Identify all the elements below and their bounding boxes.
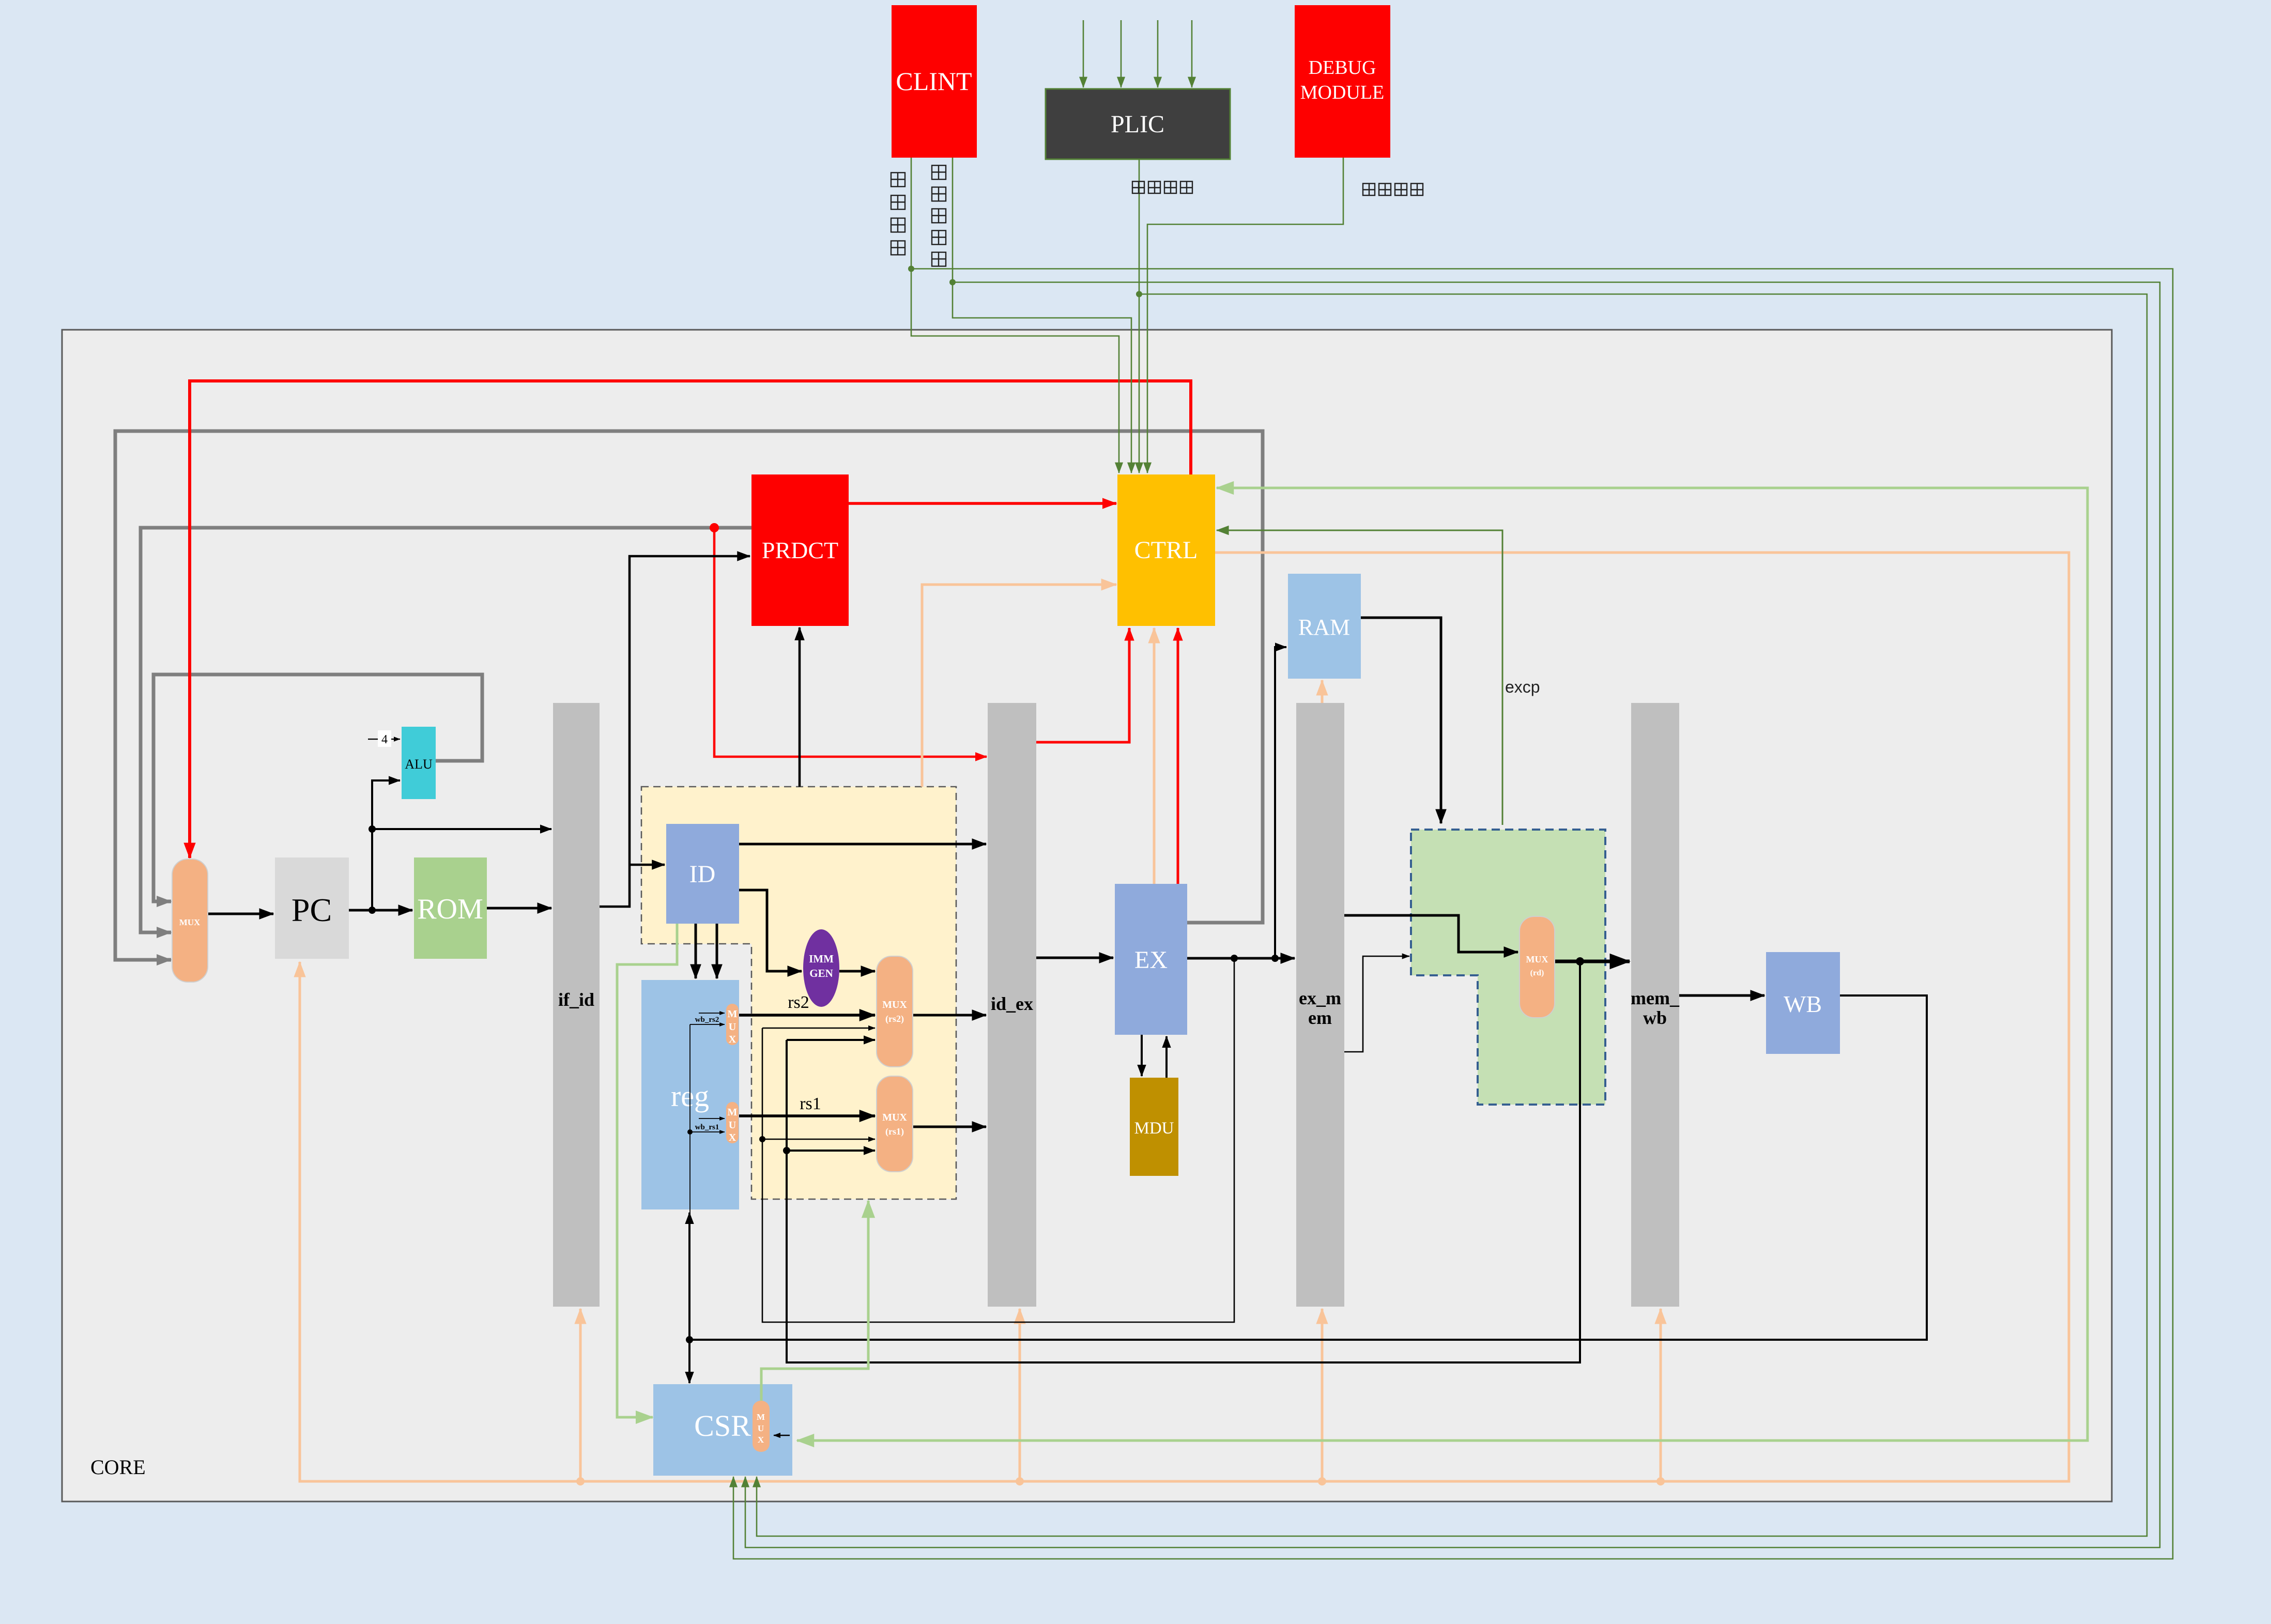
wire EX stall request to CTRL [1153,628,1156,884]
wire reg rs1 read stub [699,1118,725,1119]
svg-text:(rs1): (rs1) [885,1126,904,1137]
label external interrupt (CJK) [1132,181,1145,194]
wire WB forward to MUX(rs1) [787,1150,875,1152]
block ROM [414,857,487,959]
CORE box [62,330,2112,1502]
wire ex_mem to MUX(rd) [1344,915,1518,952]
block EX [1115,884,1187,1035]
block CSR [653,1384,792,1476]
wire software interrupt loop to CSR [733,269,2173,1559]
wire MDU to EX [1165,1036,1168,1078]
junction dot pc tap [369,825,376,833]
wire ID rs addresses to reg (two arrows) [695,924,697,978]
pipeline register bar id_ex [988,703,1036,1307]
wire MUX(rs2) to id_ex [913,1014,986,1017]
wire PRDCT to CTRL [849,502,1116,505]
wire CLINT timer interrupt to CTRL [953,158,1131,473]
svg-text:RAM: RAM [1298,615,1350,640]
svg-text:M: M [757,1412,765,1422]
label software interrupt (CJK) [891,173,905,187]
svg-text:MODULE: MODULE [1300,82,1385,103]
wire rs1 data to MUX(rs1) [738,1114,875,1117]
wire MUX(rs1) to id_ex [913,1126,986,1128]
wire decoder stall request to CTRL [922,585,1116,787]
wire hold arrow into if_id bottom [579,1309,582,1481]
svg-text:MUX: MUX [1526,954,1548,964]
label constant 4 [378,730,391,747]
block MDU [1130,1078,1178,1176]
wire rd forward loop down [787,961,1580,1362]
svg-text:MUX: MUX [179,917,201,927]
svg-text:X: X [729,1132,736,1143]
block RAM [1288,574,1361,679]
wire PC value up to ALU [372,780,400,910]
svg-text:ex_m: ex_m [1299,988,1341,1008]
wire reg and CSR exchange (double arrow) [688,1213,690,1383]
svg-text:GEN: GEN [809,967,833,979]
svg-text:MUX: MUX [882,999,907,1010]
wire exception signal green box to CTRL [1217,530,1502,825]
svg-text:rs1: rs1 [800,1094,821,1113]
block MUX pc [172,859,208,982]
wire EX to MDU [1141,1035,1143,1076]
label debug interrupt (CJK) [1363,183,1375,196]
block PRDCT branch predictor [751,474,849,626]
wire EX forward to MUX(rs1) [762,1139,875,1140]
svg-text:X: X [758,1435,764,1445]
wire ALU PC+4 loop to MUX input 1 [154,675,482,901]
wire id_ex branch info to CTRL [1036,628,1129,742]
wire ex_mem to green box low input [1344,956,1409,1052]
svg-text:excp: excp [1505,678,1540,696]
block DEBUG MODULE [1295,5,1390,158]
wire RAM read data to green box [1361,618,1441,823]
wire CTRL hold signal loop to PC and pipeline registers [300,553,2069,1481]
wire rs2 data to MUX(rs2) [738,1014,875,1017]
svg-text:MDU: MDU [1134,1119,1174,1138]
block PLIC [1046,89,1230,159]
svg-text:id_ex: id_ex [991,993,1033,1014]
wire PC value to if_id [372,828,551,830]
block forward mux wb_rs2 [726,1004,739,1045]
wire decode box to PRDCT bottom [799,627,801,787]
wire CLINT software interrupt to CTRL [911,158,1119,473]
svg-text:EX: EX [1134,946,1168,974]
block CTRL [1117,474,1215,626]
block IMM GEN [803,929,839,1007]
label timer interrupt (CJK) [932,165,946,179]
junction dot red on gray line [710,523,719,532]
wire MUX(rd) to mem_wb [1555,960,1630,963]
pipeline register bar mem_wb [1631,703,1679,1307]
wire EX forward loop down [762,958,1234,1322]
junction dots peach [576,1477,585,1485]
wire DEBUG MODULE interrupt to CTRL [1147,158,1343,473]
wire hold arrow into ex_mem bottom [1321,1309,1324,1481]
svg-text:X: X [729,1034,736,1045]
svg-text:ID: ID [689,861,716,888]
svg-text:PC: PC [291,892,332,928]
wire CSR read data to decode box [761,1201,868,1401]
wire hold arrow into mem_wb bottom [1660,1309,1662,1481]
wire EX result to ex_mem [1187,957,1295,960]
wire reg rs2 read stub [699,1013,725,1014]
svg-text:MUX: MUX [882,1112,907,1123]
wire timer interrupt loop to CSR [745,282,2160,1548]
svg-text:PLIC: PLIC [1111,111,1164,138]
block WB [1766,952,1840,1054]
svg-text:em: em [1308,1007,1332,1028]
wire WB forward to MUX(rs2) [787,1039,875,1041]
svg-text:WB: WB [1784,991,1822,1017]
wire CSR and CTRL exchange (light green loop) [797,488,2088,1441]
wire ID to id_ex [739,843,986,846]
wire EX result to RAM [1275,647,1286,958]
svg-text:CORE: CORE [90,1456,146,1479]
wire id_ex to EX [1036,957,1113,959]
block ALU adder [402,727,436,799]
block MUX rd [1520,916,1555,1018]
wire EX forward to MUX(rs2) [762,1028,875,1029]
svg-text:(rs2): (rs2) [885,1014,904,1024]
wire hold arrow ex_mem to RAM [1321,680,1324,703]
svg-text:if_id: if_id [558,989,594,1010]
wire mem_wb to WB [1679,994,1764,997]
svg-text:PRDCT: PRDCT [762,537,838,563]
svg-text:wb_rs2: wb_rs2 [695,1016,719,1024]
svg-text:rs2: rs2 [788,993,809,1012]
wire hold arrow into id_ex bottom [1019,1309,1021,1481]
block ID [666,824,739,924]
pipeline register bar if_id [553,703,600,1307]
block MUX rs1 [877,1076,913,1172]
wire CSR internal select into MUX [774,1435,790,1436]
svg-text:CTRL: CTRL [1134,537,1198,564]
wire if_id instruction to PRDCT [600,556,750,907]
pipeline register bar ex_mem [1296,703,1344,1307]
svg-text:U: U [758,1423,764,1433]
wire MUX to PC [208,913,273,915]
wire CTRL jump address to PC MUX top [190,381,1191,858]
wire ID to IMM GEN [739,890,802,971]
svg-text:wb: wb [1643,1007,1667,1028]
block PC [275,857,349,959]
wire PC to ROM [349,909,412,912]
svg-text:CLINT: CLINT [896,67,972,96]
svg-text:M: M [728,1008,738,1020]
wire EX jump request to CTRL [1177,628,1179,884]
wire prediction tap to id_ex [714,528,987,757]
wire if_id instruction branch to ID [630,864,665,866]
block forward mux wb_rs1 [726,1102,739,1143]
svg-text:U: U [729,1021,736,1033]
svg-text:U: U [729,1120,736,1131]
svg-text:wb_rs1: wb_rs1 [695,1123,719,1131]
wire PLIC external interrupt to CTRL [1139,159,1140,473]
wire WB writeback loop to reg [689,995,1927,1340]
wire wb_rs2 stub [690,1024,725,1025]
block MUX rs2 [877,956,913,1067]
wire IMM GEN to MUX(rs2) [839,970,875,973]
wire EX jump address to MUX input 3 [115,431,1263,960]
block reg [641,980,739,1209]
block CSR internal MUX [753,1401,770,1452]
commit dashed region (green) [1411,830,1605,1105]
wire PRDCT predicted address to MUX input 2 [141,528,751,932]
svg-text:4: 4 [381,733,388,746]
wire constant 4 to ALU [368,739,400,740]
svg-text:(rd): (rd) [1530,969,1544,977]
svg-text:mem_: mem_ [1631,988,1680,1008]
svg-text:IMM: IMM [809,953,834,965]
junction dot pc out [369,907,376,914]
svg-text:M: M [728,1107,738,1118]
wire external interrupt loop to CSR [757,294,2147,1536]
block CLINT [892,5,977,158]
svg-text:ROM: ROM [417,893,483,925]
wire wb data thin riser to forwarding muxes [689,1024,690,1340]
decode dashed region (beige) [641,787,956,1199]
svg-text:ALU: ALU [405,757,433,772]
svg-text:DEBUG: DEBUG [1309,57,1376,79]
svg-text:CSR: CSR [694,1409,751,1443]
wire ID to CSR read address [617,924,677,1417]
wire wb_rs1 stub [690,1131,725,1132]
wire ROM instruction to if_id [487,907,551,910]
interrupt source arrows into PLIC top [1083,20,1084,87]
